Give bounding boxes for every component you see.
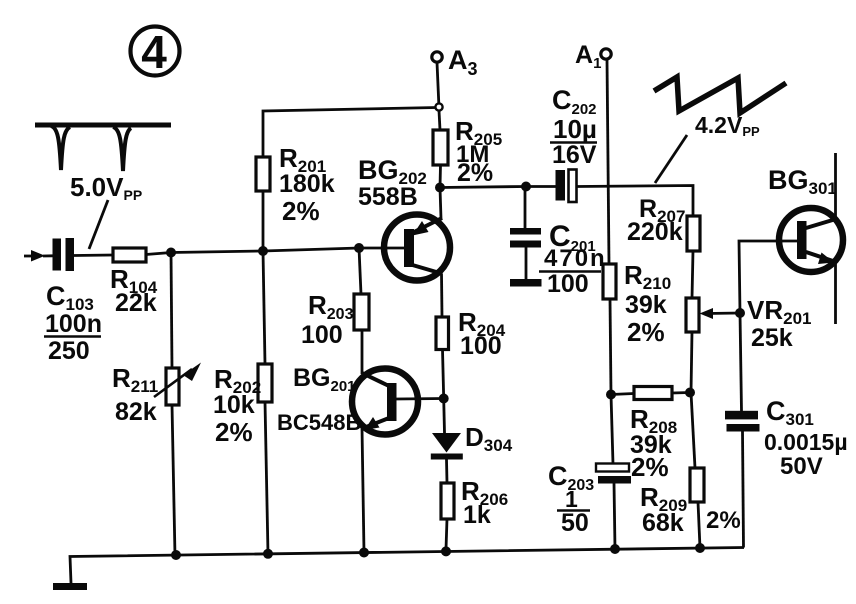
- resistor R104: [113, 248, 146, 262]
- wire input to C103: [43, 254, 53, 257]
- wire node down to R202: [263, 251, 265, 364]
- svg-text:100n: 100n: [45, 310, 102, 338]
- node junction (BG202 emitter / C202): [435, 183, 445, 193]
- svg-text:180k: 180k: [279, 170, 335, 198]
- svg-text:220k: 220k: [627, 218, 683, 246]
- wire node to BG202 base: [359, 247, 404, 250]
- wire BG202 emitter up to node: [440, 188, 441, 220]
- svg-text:22k: 22k: [115, 289, 157, 317]
- svg-text:558B: 558B: [358, 183, 418, 211]
- variable resistor R211: [154, 363, 201, 406]
- svg-text:68k: 68k: [642, 509, 684, 537]
- wire C301 to ground bus: [743, 432, 744, 548]
- wire A3 down to node circle: [437, 63, 439, 104]
- svg-text:250: 250: [48, 337, 90, 365]
- resistor R202: [258, 364, 272, 402]
- resistor R209: [690, 468, 704, 502]
- transistor BG201 (NPN BC548B): [352, 369, 418, 435]
- potentiometer VR201: [686, 298, 740, 332]
- svg-text:2%: 2%: [631, 452, 669, 482]
- svg-text:82k: 82k: [115, 398, 157, 426]
- svg-text:50V: 50V: [780, 453, 823, 480]
- svg-text:1k: 1k: [463, 501, 491, 529]
- label R206 1k: [461, 476, 508, 529]
- label R211 82k: [112, 363, 158, 426]
- resistor R208 (horizontal): [611, 387, 690, 400]
- label R205 1M 2%: [455, 116, 502, 187]
- bus junction (R202): [263, 549, 273, 559]
- pointer line from 5.0Vpp to wire: [89, 200, 108, 249]
- svg-text:50: 50: [561, 509, 589, 537]
- wire BG201 base to node: [396, 397, 444, 400]
- resistor R204: [436, 317, 449, 350]
- wire node to node R203: [263, 248, 359, 251]
- wire C202 to R207 corner: [577, 186, 694, 217]
- resistor R207: [687, 216, 700, 251]
- label R104 22k: [110, 264, 158, 317]
- capacitor C103: [53, 238, 75, 271]
- resistor R203: [354, 294, 369, 330]
- wire node to node R201: [171, 251, 263, 253]
- svg-text:100: 100: [460, 332, 502, 360]
- label BG202 558B: [358, 155, 427, 211]
- svg-text:25k: 25k: [751, 324, 793, 352]
- terminal A3: [432, 45, 478, 79]
- wire node down to R203 top: collector column: [359, 248, 361, 294]
- wire node down to C301: [740, 313, 742, 411]
- wire BG301 base: [776, 240, 797, 243]
- label C203 1/50: [548, 461, 594, 537]
- terminal A1: [575, 41, 611, 72]
- resistor R210: [603, 264, 616, 299]
- svg-text:2%: 2%: [282, 196, 320, 226]
- label R208 39k 2%: [630, 404, 677, 482]
- diode D304: [431, 399, 463, 484]
- wire C103 to R104: [74, 254, 113, 257]
- wire node to R209: [691, 393, 695, 469]
- svg-text:4: 4: [141, 26, 167, 78]
- bus junction (R209): [695, 543, 705, 553]
- label R201 180k 2%: [279, 143, 335, 226]
- wire C203 to ground bus: [614, 483, 615, 549]
- wire A1 down to R210 (crosses C202 wire): [607, 60, 609, 265]
- wire node down to R211: [171, 253, 172, 369]
- svg-text:100: 100: [547, 270, 589, 298]
- capacitor C203: [596, 464, 631, 484]
- svg-text:100: 100: [301, 321, 343, 349]
- sawtooth waveform: [654, 77, 786, 113]
- label R209 68k 2%: [640, 482, 741, 537]
- svg-text:39k: 39k: [625, 291, 667, 319]
- wire BG301 emitter down: [834, 260, 837, 324]
- ground symbol: [53, 583, 87, 590]
- label R210 39k 2%: [624, 260, 671, 347]
- transistor BG301 (NPN): [779, 208, 843, 272]
- wire node to C202: [526, 185, 556, 188]
- wire R209 to ground bus: [698, 502, 700, 548]
- wire BG301 collector up: [834, 153, 837, 222]
- svg-text:16V: 16V: [552, 141, 597, 169]
- label C103 100n/250: [44, 281, 102, 365]
- svg-text:10µ: 10µ: [553, 114, 597, 144]
- label R203 100: [301, 290, 354, 349]
- wire R104 to node: [146, 253, 171, 255]
- resistor R206: [441, 483, 454, 519]
- svg-text:BC548B: BC548B: [277, 410, 361, 435]
- wire BG202 collector down to R204: [440, 274, 443, 318]
- node junction (R208 left): [606, 390, 616, 400]
- wire node to C203: [611, 395, 613, 465]
- node junction (R208 right / R207 column): [685, 388, 695, 398]
- svg-text:2%: 2%: [215, 417, 253, 447]
- node junction (BG201 base / D304): [439, 394, 449, 404]
- node junction (C201 tap): [521, 182, 531, 192]
- label C301 0.0015u 50V: [764, 396, 848, 480]
- wire R206 to ground bus: [446, 519, 447, 549]
- svg-text:0.0015µ: 0.0015µ: [764, 429, 848, 455]
- svg-text:2%: 2%: [627, 317, 665, 347]
- bus junction (BG201 emitter): [359, 548, 369, 558]
- wire node to C201 node: [440, 187, 526, 188]
- resistor R205: [433, 130, 448, 165]
- wire R203 to BG201 collector: [361, 330, 364, 374]
- small open node circle below A3: [435, 103, 442, 110]
- transistor BG202 (PNP 558B): [384, 215, 450, 281]
- wire R205 to emitter node: [439, 165, 442, 188]
- svg-text:10k: 10k: [213, 391, 255, 419]
- wire R207 to VR201: [692, 251, 693, 298]
- node junction (R203/BG201 column): [354, 243, 364, 253]
- label VR201 25k: [747, 295, 812, 352]
- label C202 10u/16V: [550, 85, 597, 169]
- wire R204 to node: [443, 350, 444, 399]
- label R202 10k 2%: [213, 364, 261, 447]
- svg-text:2%: 2%: [706, 507, 741, 534]
- sheet number circle 4: [131, 26, 180, 78]
- input arrow: [24, 250, 45, 262]
- resistor R201: [256, 157, 270, 191]
- svg-text:2%: 2%: [457, 159, 493, 187]
- label R207 220k: [627, 195, 685, 246]
- node junction (R201/R202 column): [258, 246, 268, 256]
- wire R210 to R208 node: [610, 299, 611, 395]
- ground bus: [70, 548, 744, 584]
- capacitor C202: [556, 170, 577, 203]
- bus junction (C203): [610, 544, 620, 554]
- wire node up and to BG301 base: [739, 241, 776, 313]
- wire BG201 emitter to ground bus: [362, 428, 364, 552]
- pointer line from 4.2Vpp to wire: [655, 135, 687, 183]
- wire node up to R201: [262, 191, 265, 251]
- bus junction (R211): [171, 550, 181, 560]
- capacitor C201 (to ground bar): [510, 187, 542, 287]
- label C201 470n/100: [539, 220, 607, 298]
- label R204 100: [458, 307, 506, 360]
- wire R211 to ground bus: [172, 405, 175, 556]
- node junction (R211 tap): [166, 248, 176, 258]
- bus junction (R206): [441, 546, 451, 556]
- capacitor C301: [725, 411, 760, 432]
- wire node circle to R205: [439, 111, 440, 130]
- wire R202 to ground bus: [265, 402, 268, 554]
- wire R201 top corner to A3 column: [263, 108, 437, 158]
- wire VR201 to node: [691, 332, 692, 393]
- label BG201 BC548B: [277, 364, 361, 435]
- input waveform (negative sync pulses): [35, 125, 171, 171]
- node junction (VR201 wiper / BG301 base / C301): [735, 308, 745, 318]
- svg-text:470n: 470n: [544, 245, 607, 272]
